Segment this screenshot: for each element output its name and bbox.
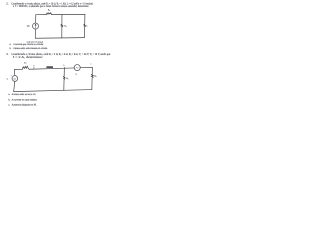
svg-text:2.: 2.	[6, 2, 9, 6]
wire top (left segment)	[36, 14, 47, 16]
wire bottom	[35, 37, 84, 40]
resistor R2 (vertical zigzag)	[61, 24, 63, 27]
source V circle	[33, 23, 39, 29]
wire right branch lower	[91, 78, 93, 89]
svg-text:A tensao sobre cada elemento d: A tensao sobre cada elemento do circuito…	[12, 47, 48, 50]
svg-text:A tensao entre os nos a e b.: A tensao entre os nos a e b.	[11, 93, 37, 96]
wire top (right segment)	[52, 13, 85, 15]
V2 tilde	[76, 67, 79, 68]
wire middle branch lower	[61, 27, 63, 38]
wire right branch upper	[84, 14, 86, 24]
resistor R2 (vertical)	[63, 76, 65, 80]
svg-text:A corrente em cada resistor.: A corrente em cada resistor.	[11, 98, 38, 101]
inductor L	[84, 24, 86, 27]
node tick a	[33, 67, 35, 69]
resistor R1	[46, 13, 51, 15]
resistor R3 (vertical)	[91, 74, 93, 78]
wire top left segment	[14, 68, 22, 70]
wire right branch upper	[91, 67, 93, 74]
fuse element on top wire	[46, 66, 53, 68]
wire right branch lower	[83, 27, 85, 37]
source V2 circle	[74, 65, 80, 71]
source arrow	[35, 24, 36, 28]
svg-text:A potencia dissipada em R3.: A potencia dissipada em R3.	[11, 104, 37, 107]
svg-text:24: 24	[14, 78, 16, 81]
node tick b	[63, 67, 65, 69]
svg-text:3.: 3.	[6, 52, 9, 56]
svg-text:A corrente que circula no circ: A corrente que circula no circuito.	[12, 43, 44, 46]
svg-text:I = 2 A, determine:: I = 2 A, determine:	[13, 55, 43, 59]
wire left lower	[14, 81, 15, 91]
wire left upper	[35, 15, 37, 23]
wire middle branch lower	[63, 80, 65, 90]
wire middle branch upper	[61, 14, 63, 24]
wire top mid segment	[29, 68, 74, 69]
faint mark near top-right	[90, 63, 91, 64]
svg-text:+: +	[11, 75, 12, 77]
wire left upper	[13, 70, 15, 76]
svg-text:b: b	[64, 64, 65, 67]
wire middle branch upper	[63, 68, 65, 76]
wire bottom	[14, 90, 92, 92]
source V1 circle	[12, 76, 18, 82]
wire left lower	[34, 29, 36, 38]
wire top right segment	[80, 66, 92, 68]
svg-text:e f = 1000 Hz, e sabendo que a: e f = 1000 Hz, e sabendo que a fonte for…	[13, 4, 89, 8]
resistor R1 (zigzag)	[22, 66, 29, 69]
svg-text:v(t): v(t)	[27, 25, 30, 28]
